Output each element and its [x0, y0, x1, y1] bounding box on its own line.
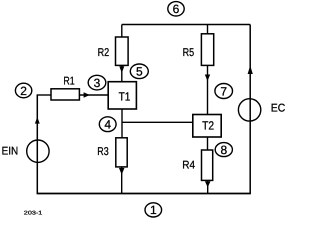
arrow: current arrow down on R4 lead [205, 181, 211, 187]
source EC (circle) [238, 99, 260, 121]
svg-text:R1: R1 [63, 75, 74, 87]
wire: R2 to T1 top [121, 65, 123, 81]
svg-text:1: 1 [150, 203, 157, 217]
resistor R3 [116, 138, 127, 167]
svg-text:R5: R5 [183, 47, 195, 59]
svg-text:6: 6 [173, 2, 180, 16]
wire: bottom bus (net 1) [37, 193, 251, 195]
resistor R2 [116, 37, 129, 65]
wire: top bus down to R5 [207, 25, 209, 34]
arrow: current arrow down on R3 lead [119, 168, 125, 175]
node 7 [215, 84, 233, 99]
wire: T2 bottom to R4 [207, 137, 209, 150]
svg-text:T1: T1 [119, 89, 131, 103]
arrow: current arrow up on right rail [248, 66, 253, 75]
transistor block T1 [108, 82, 136, 109]
resistor R5 [201, 34, 213, 66]
svg-text:8: 8 [220, 143, 227, 157]
node 8 [215, 143, 232, 157]
arrow: current arrow down on R5 lead [205, 75, 210, 82]
svg-text:5: 5 [136, 65, 143, 79]
node 3 [88, 75, 106, 90]
node 2 [15, 83, 31, 98]
resistor R1 [51, 89, 79, 100]
resistor R4 [202, 150, 213, 180]
arrow: current arrow up on left rail [35, 117, 40, 124]
svg-text:EIN: EIN [2, 146, 19, 158]
arrow: current arrow down on R2 lead [119, 66, 124, 73]
wire: T1 bottom to R3 [121, 109, 123, 138]
svg-text:R3: R3 [97, 146, 108, 158]
svg-text:EC: EC [271, 103, 286, 115]
svg-text:2: 2 [20, 84, 27, 98]
wire: input wire rail to R1 [37, 94, 51, 96]
wire: R4 to bottom bus [207, 180, 209, 193]
wire: top bus down to R2 [121, 25, 123, 38]
source EIN (circle) [27, 140, 49, 162]
svg-text:T2: T2 [202, 118, 214, 132]
node 6 [168, 2, 184, 17]
svg-text:R2: R2 [98, 47, 110, 59]
arrow: current arrow right on R1 output [84, 92, 90, 98]
wire: R3 to bottom bus [121, 167, 123, 194]
svg-text:3: 3 [94, 76, 101, 90]
wire: left rail (EIN branch) [36, 95, 38, 194]
svg-text:R4: R4 [182, 160, 195, 172]
wire: right rail (top bus to EC) [249, 25, 251, 194]
svg-text:4: 4 [104, 118, 111, 132]
svg-text:7: 7 [220, 84, 227, 98]
node 1 [145, 203, 162, 217]
wire: top bus (net 6) [122, 24, 250, 26]
node 5 [130, 64, 148, 79]
wire: node 4 branch to T2 input [122, 121, 193, 123]
wire: R5 to T2 top [207, 65, 209, 114]
wire: R1 to T1 input [79, 94, 108, 96]
transistor block T2 [193, 115, 221, 138]
svg-text:203-1: 203-1 [24, 211, 43, 217]
node 4 [99, 117, 116, 132]
